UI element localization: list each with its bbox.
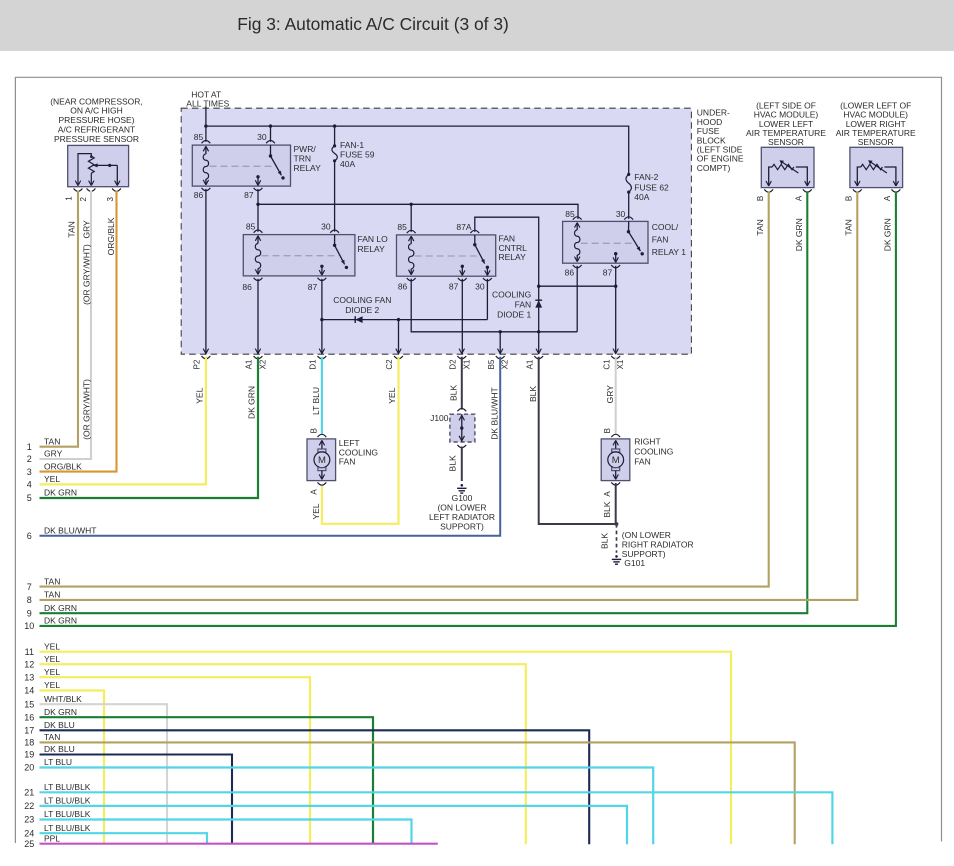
svg-text:DIODE 2: DIODE 2: [345, 305, 379, 315]
wire: circuit 20 LT BLU run with drop: [40, 768, 654, 845]
label FAN LO RELAY: [358, 234, 389, 254]
svg-text:YEL: YEL: [311, 503, 321, 519]
svg-text:6: 6: [27, 531, 32, 541]
wire: COOL/FAN 1 pin 87 to connector C1/X1: [615, 266, 617, 354]
pin 87 terminal of FAN LO relay: [318, 278, 327, 281]
label PWR/TRN RELAY: [294, 144, 322, 173]
svg-text:A1: A1: [525, 359, 534, 369]
node: B5 tap on fan ground bus: [499, 330, 502, 333]
svg-text:A: A: [883, 195, 892, 201]
connector terminal A1/X2 at fuse block: [254, 349, 263, 359]
diode D2 COOLING FAN DIODE 2: [322, 316, 488, 323]
motor symbol left fan: [314, 440, 330, 479]
svg-text:(ON LOWER: (ON LOWER: [437, 503, 486, 513]
wire: FAN CNTRL pin 30 to diode 2 line: [486, 279, 488, 320]
pin 30 terminal of PWR/TRN relay: [266, 141, 275, 144]
svg-text:X1: X1: [616, 359, 625, 369]
svg-text:D1: D1: [309, 359, 318, 370]
svg-text:DK GRN: DK GRN: [794, 218, 804, 251]
svg-text:FAN: FAN: [634, 456, 651, 466]
svg-text:2: 2: [79, 197, 88, 202]
dashed actuator link FAN LO relay: [262, 255, 340, 257]
svg-text:86: 86: [565, 267, 575, 277]
wire: TAN left sensor pin B to circuit 7: [40, 191, 769, 586]
wire: circuit 17 DK BLU run with drop: [40, 730, 590, 844]
svg-text:ORG/BLK: ORG/BLK: [106, 217, 116, 255]
svg-text:11: 11: [25, 647, 34, 657]
node: diode 1 top junction: [537, 285, 540, 288]
connector terminal P2 at fuse block: [202, 349, 211, 359]
pin 85 terminal of PWR/TRN relay: [202, 141, 211, 144]
thermistor element (right sensor): [855, 160, 899, 186]
terminal arc above J100: [457, 409, 466, 412]
svg-text:A: A: [603, 491, 612, 497]
svg-text:(OR GRY/WHT): (OR GRY/WHT): [81, 379, 91, 440]
wire: BLK J100 to ground G100: [461, 447, 463, 482]
pin A terminal of right fan: [611, 482, 620, 485]
pin 86 terminal of FAN LO relay: [254, 278, 263, 281]
svg-text:YEL: YEL: [195, 387, 205, 403]
svg-text:COOL/: COOL/: [652, 222, 679, 232]
svg-text:1: 1: [65, 196, 74, 201]
pin 86 terminal of PWR/TRN relay: [202, 188, 211, 191]
switch of FAN CNTRL relay: [473, 235, 489, 269]
label HOT AT ALL TIMES: [186, 89, 229, 108]
pressure sensor wiper arm: [75, 155, 120, 185]
wire: circuit 13 YEL run with drop: [40, 677, 311, 844]
svg-text:YEL: YEL: [44, 474, 60, 484]
coil of FAN CNTRL relay: [409, 236, 414, 275]
svg-text:23: 23: [24, 815, 34, 825]
pin 87 terminal of COOL/FAN relay 1: [611, 265, 620, 268]
label RIGHT COOLING FAN: [634, 436, 673, 466]
svg-text:COOLING: COOLING: [634, 447, 673, 457]
svg-text:(OR GRY/WHT): (OR GRY/WHT): [81, 244, 91, 305]
ground G100: [457, 484, 466, 493]
svg-text:A: A: [795, 195, 804, 201]
svg-text:14: 14: [24, 686, 34, 696]
svg-text:WHT/BLK: WHT/BLK: [44, 694, 82, 704]
node: C2 wire tap on diode 2 line: [397, 318, 400, 321]
pressure sensor box: [68, 145, 129, 186]
svg-text:FAN LO: FAN LO: [358, 234, 389, 244]
pin 86 terminal of COOL/FAN relay 1: [573, 265, 582, 268]
node: diode 1 bottom on fan ground bus: [537, 330, 540, 333]
svg-text:M: M: [318, 455, 326, 466]
svg-text:LT BLU: LT BLU: [311, 387, 321, 415]
svg-text:30: 30: [321, 222, 331, 232]
svg-text:M: M: [612, 455, 620, 466]
svg-text:B5: B5: [487, 359, 496, 369]
connector terminal C2 at fuse block: [394, 349, 403, 359]
wire: ORG/BLK from sensor pin 3 to circuit 3: [40, 191, 117, 472]
air temperature sensor box (right): [850, 147, 903, 187]
svg-text:B: B: [603, 428, 612, 433]
connector terminal A1 at fuse block: [534, 349, 543, 359]
wire: LT BLU connector D1 to left cooling fan pin B: [321, 357, 323, 434]
wire: YEL connector P2 to circuit 4: [40, 357, 206, 485]
pin A terminal of left fan: [318, 482, 327, 485]
splice J100 box: [450, 414, 475, 442]
pin B terminal (left sensor): [764, 189, 773, 192]
svg-text:DK GRN: DK GRN: [44, 603, 77, 613]
svg-text:C2: C2: [385, 359, 394, 370]
svg-text:LT BLU/BLK: LT BLU/BLK: [44, 796, 91, 806]
svg-text:PWR/: PWR/: [294, 144, 317, 154]
svg-text:COOLING FAN: COOLING FAN: [333, 295, 391, 305]
svg-text:TAN: TAN: [67, 221, 77, 237]
pin 85 terminal of FAN CNTRL relay: [407, 230, 416, 233]
svg-text:3: 3: [27, 467, 32, 477]
svg-text:DK GRN: DK GRN: [44, 488, 77, 498]
svg-text:13: 13: [24, 672, 34, 682]
svg-text:B: B: [845, 196, 854, 201]
wire through J100 splice: [459, 414, 464, 442]
node: right fan ground junction: [615, 522, 619, 526]
dashed actuator link FAN CNTRL relay: [415, 255, 478, 257]
svg-text:B: B: [309, 428, 318, 433]
svg-text:RELAY: RELAY: [358, 244, 386, 254]
wire: DK BLU/WHT connector B5/X2 to circuit 6: [40, 357, 501, 536]
ground G101: [612, 555, 621, 564]
wire: FAN CNTRL pin 87 to connector D2/X1: [461, 279, 463, 354]
motor M1 LEFT COOLING FAN box: [307, 439, 336, 481]
pin 87 terminal of PWR/TRN relay: [254, 188, 263, 191]
wire: relay coil feed bus: [258, 204, 578, 219]
pressure sensor pin terminals 1 2 3: [74, 189, 121, 192]
node: coil bus at FAN LO pin 85: [256, 203, 259, 206]
node: diode 2 tap on FAN LO pin 87 wire: [320, 318, 323, 321]
thermistor element (left sensor): [766, 160, 810, 186]
svg-text:J100: J100: [430, 413, 449, 423]
svg-text:86: 86: [242, 282, 252, 292]
svg-text:G101: G101: [624, 558, 645, 568]
svg-text:GRY: GRY: [605, 385, 615, 404]
fuse FAN-2 FUSE 62 40A: [626, 173, 631, 194]
svg-text:FAN: FAN: [652, 235, 669, 245]
label left air temperature sensor: [746, 100, 826, 147]
svg-text:ALL TIMES: ALL TIMES: [186, 98, 229, 108]
svg-text:LEFT RADIATOR: LEFT RADIATOR: [429, 512, 495, 522]
wire: circuit 23 LT BLU/BLK run with drop: [40, 820, 412, 845]
pressure sensor potentiometer: [78, 154, 94, 184]
relay FAN LO RELAY box: [243, 235, 355, 276]
svg-text:FAN: FAN: [515, 300, 532, 310]
connector terminal C1/X1 at fuse block: [611, 349, 620, 359]
air temperature sensor box (left): [761, 147, 814, 187]
svg-text:40A: 40A: [340, 159, 355, 169]
svg-text:86: 86: [398, 281, 408, 291]
wire: COOL/FAN 1 pin 86 drop to fan ground bus: [576, 266, 578, 332]
wire: FAN-2 fuse to COOL/FAN relay 1 pin 30: [628, 192, 630, 219]
pin A terminal (left sensor): [803, 189, 812, 192]
pin 85 terminal of COOL/FAN relay 1: [573, 217, 582, 220]
svg-text:7: 7: [27, 582, 32, 592]
wire: circuit 25 PPL horizontal run: [40, 843, 438, 845]
wire: FAN LO pin 86 to connector A1/X2: [257, 279, 259, 354]
svg-text:40A: 40A: [634, 192, 649, 202]
svg-text:DK BLU: DK BLU: [44, 720, 75, 730]
terminal arc below J100: [457, 445, 466, 448]
fuse FAN-1 FUSE 59 40A: [332, 144, 337, 162]
svg-text:YEL: YEL: [44, 680, 60, 690]
svg-text:3: 3: [106, 197, 115, 202]
svg-text:21: 21: [24, 788, 34, 798]
wire: circuit 15 WHT/BLK run with drop: [40, 704, 168, 844]
node: coil bus at FAN CNTRL pin 85: [410, 203, 413, 206]
wire: circuit 11 YEL run with drop: [40, 652, 732, 845]
relay COOL/FAN RELAY 1 box: [563, 221, 648, 263]
pin 87 terminal of FAN CNTRL relay: [458, 278, 467, 281]
svg-text:17: 17: [24, 726, 34, 736]
svg-text:FUSE 59: FUSE 59: [340, 150, 375, 160]
svg-text:P2: P2: [193, 359, 202, 369]
wire: B+ bus inside fuse block: [206, 126, 629, 174]
wire: diode 1 node to COOL/FAN 1 pin 87 wire: [539, 285, 616, 287]
wire: DK GRN right sensor pin A to circuit 10: [40, 191, 896, 626]
svg-text:5: 5: [27, 493, 32, 503]
dashed actuator link PWR/TRN relay: [210, 165, 274, 167]
svg-text:BLK: BLK: [528, 386, 538, 402]
label (ON LOWER RIGHT RADIATOR SUPPORT) G101: [622, 530, 694, 568]
wire: TAN right sensor pin B to circuit 8: [40, 191, 858, 600]
svg-text:YEL: YEL: [387, 387, 397, 403]
svg-text:RIGHT: RIGHT: [634, 436, 660, 446]
svg-text:FAN-1: FAN-1: [340, 140, 364, 150]
svg-text:8: 8: [27, 595, 32, 605]
node: junction at COOL/FAN 1 pin 87 wire: [614, 285, 617, 288]
relay FAN CNTRL RELAY box: [397, 235, 496, 276]
wire: circuit 12 YEL run with drop: [40, 664, 526, 844]
svg-text:TRN: TRN: [294, 153, 311, 163]
svg-text:X1: X1: [462, 359, 471, 369]
wire: YEL connector C2 to left cooling fan pin A: [322, 357, 399, 524]
wire: DK GRN left sensor pin A to circuit 9: [40, 191, 808, 613]
wire: coil bus drop to FAN CNTRL relay pin 85: [410, 204, 412, 232]
svg-text:16: 16: [24, 712, 34, 722]
svg-text:RIGHT RADIATOR: RIGHT RADIATOR: [622, 540, 694, 550]
svg-text:PRESSURE SENSOR: PRESSURE SENSOR: [54, 134, 139, 144]
svg-text:BLK: BLK: [449, 385, 459, 401]
svg-text:RELAY: RELAY: [294, 163, 322, 173]
wire: TAN from sensor pin 1 to circuit 1: [40, 191, 79, 447]
svg-text:DK GRN: DK GRN: [44, 707, 77, 717]
relay PWR/TRN RELAY box: [192, 145, 290, 186]
pin B terminal of right fan: [611, 434, 620, 437]
switch of PWR/TRN relay: [269, 145, 285, 179]
wire: BLK connector D2/X1 to junction J100: [461, 357, 463, 410]
svg-text:85: 85: [246, 222, 256, 232]
wire: circuit 18 TAN run with drop: [40, 742, 795, 844]
svg-text:YEL: YEL: [44, 641, 60, 651]
wire: diode 2 line to connector C2: [398, 320, 400, 355]
svg-text:DK GRN: DK GRN: [44, 616, 77, 626]
svg-text:15: 15: [24, 699, 34, 709]
dashed actuator link COOL/FAN relay 1: [581, 242, 633, 244]
label: A/C refrigerant pressure sensor: [50, 96, 143, 144]
wire: FAN LO pin 87 to connector D1: [321, 279, 323, 354]
svg-text:BLK: BLK: [447, 455, 457, 471]
svg-text:DK BLU/WHT: DK BLU/WHT: [490, 387, 500, 439]
svg-text:TAN: TAN: [844, 219, 854, 235]
svg-text:SENSOR: SENSOR: [858, 137, 894, 147]
svg-text:9: 9: [27, 608, 32, 618]
wire: GRY connector C1/X1 to right cooling fan pin B: [615, 357, 617, 434]
svg-text:RELAY 1: RELAY 1: [652, 247, 686, 257]
wire: BLK dashed to ground G101: [616, 524, 618, 553]
svg-text:1: 1: [27, 442, 32, 452]
pin A terminal (right sensor): [892, 189, 901, 192]
pin 87 contact stub FAN LO relay: [319, 265, 324, 276]
pin 85 terminal of FAN LO relay: [254, 230, 263, 233]
svg-text:TAN: TAN: [44, 576, 60, 586]
svg-text:B: B: [756, 196, 765, 201]
pin 87A terminal of FAN CNTRL relay: [470, 230, 479, 233]
pin 87 contact stub PWR/TRN relay: [255, 175, 260, 185]
wire: circuit 21 LT BLU/BLK run with drop: [40, 792, 833, 844]
switch of COOL/FAN relay 1: [627, 221, 644, 255]
pin B terminal (right sensor): [853, 189, 862, 192]
motor M2 RIGHT COOLING FAN box: [601, 439, 630, 481]
label COOL/FAN RELAY 1: [652, 222, 686, 257]
svg-text:4: 4: [27, 480, 32, 490]
svg-text:G100: G100: [452, 493, 473, 503]
label FAN-2 FUSE 62 40A: [634, 172, 669, 202]
pin 30 terminal of FAN CNTRL relay: [483, 278, 492, 281]
svg-text:TAN: TAN: [44, 732, 60, 742]
svg-text:SUPPORT): SUPPORT): [440, 522, 484, 532]
svg-text:A1: A1: [245, 359, 254, 369]
svg-text:BLK: BLK: [602, 501, 612, 517]
svg-text:30: 30: [616, 209, 626, 219]
wire: GRY from sensor pin 2 to circuit 2: [40, 191, 92, 460]
svg-text:A: A: [309, 489, 318, 495]
svg-text:DK BLU/WHT: DK BLU/WHT: [44, 525, 96, 535]
node: bus junction at FAN-1 fuse feed: [333, 124, 336, 127]
svg-text:85: 85: [194, 132, 204, 142]
svg-text:25: 25: [24, 839, 34, 849]
svg-text:87A: 87A: [456, 222, 471, 232]
pin 86 terminal of FAN CNTRL relay: [407, 278, 416, 281]
wire: circuit 14 YEL run with drop: [40, 691, 105, 845]
svg-text:22: 22: [24, 801, 34, 811]
svg-text:87: 87: [244, 190, 254, 200]
pin 87 contact stub COOL/FAN relay 1: [613, 252, 618, 262]
wire: circuit 16 DK GRN run with drop: [40, 717, 374, 844]
label LEFT COOLING FAN: [339, 438, 378, 467]
coil of FAN LO relay: [255, 236, 260, 275]
pin 30 terminal of FAN LO relay: [330, 230, 339, 233]
pin B terminal of left fan: [318, 434, 327, 437]
wire: DK GRN connector A1/X2 to circuit 5: [40, 357, 259, 498]
svg-text:2: 2: [27, 454, 32, 464]
svg-text:LT BLU/BLK: LT BLU/BLK: [44, 823, 91, 833]
svg-text:24: 24: [24, 828, 34, 838]
svg-text:PPL: PPL: [44, 833, 60, 843]
svg-text:SENSOR: SENSOR: [768, 137, 804, 147]
label G100 (ON LOWER LEFT RADIATOR SUPPORT): [429, 493, 495, 532]
coil of COOL/FAN relay 1: [575, 223, 580, 262]
svg-text:TAN: TAN: [755, 219, 765, 235]
svg-text:LT BLU/BLK: LT BLU/BLK: [44, 809, 91, 819]
svg-text:RELAY: RELAY: [499, 252, 527, 262]
svg-text:30: 30: [257, 132, 267, 142]
svg-text:C1: C1: [602, 359, 611, 370]
svg-text:12: 12: [24, 659, 34, 669]
svg-text:DIODE 1: DIODE 1: [497, 310, 531, 320]
svg-text:86: 86: [194, 190, 204, 200]
svg-text:FAN-2: FAN-2: [634, 172, 658, 182]
underhood fuse block (dashed box): [181, 108, 691, 354]
svg-text:DK GRN: DK GRN: [883, 218, 893, 251]
wire: bus drop to PWR/TRN relay pin 30: [270, 126, 272, 142]
wire: circuit 19 DK BLU run with drop: [40, 755, 233, 845]
svg-text:20: 20: [24, 763, 34, 773]
connector terminal D2/X1 at fuse block: [457, 349, 466, 359]
svg-text:85: 85: [397, 222, 407, 232]
pin 87 contact stub FAN CNTRL relay: [460, 265, 465, 276]
svg-text:87: 87: [449, 281, 459, 291]
svg-text:10: 10: [24, 621, 34, 631]
label underhood fuse block: [697, 108, 744, 173]
wire: BLK connector A1 to right fan ground junction: [539, 357, 617, 524]
coil of PWR/TRN relay: [203, 146, 208, 185]
diode D1 COOLING FAN DIODE 1: [535, 286, 542, 332]
svg-text:LT BLU: LT BLU: [44, 757, 72, 767]
label COOLING FAN DIODE 2: [333, 295, 391, 315]
pin 30 terminal of COOL/FAN relay 1: [624, 217, 633, 220]
wire: FAN CNTRL pin 87A to cooling fan diode 1 node: [475, 217, 539, 286]
svg-text:X2: X2: [501, 359, 510, 369]
wire: circuit 24 LT BLU/BLK run with drop: [40, 833, 208, 844]
wire: fan ground bus to connector B5/X2: [499, 332, 501, 354]
label right air temperature sensor: [836, 100, 916, 147]
svg-text:COMPT): COMPT): [697, 163, 731, 173]
svg-text:87: 87: [308, 282, 318, 292]
svg-text:GRY: GRY: [81, 220, 91, 239]
wire: bus drop to PWR/TRN relay pin 85: [205, 126, 207, 142]
svg-text:FAN: FAN: [339, 457, 356, 467]
connector terminal D1 at fuse block: [318, 349, 327, 359]
svg-text:TAN: TAN: [44, 590, 60, 600]
svg-text:ORG/BLK: ORG/BLK: [44, 461, 82, 471]
switch of FAN LO relay: [333, 235, 348, 269]
wire: diode 1 to connector A1 (right): [538, 332, 540, 354]
svg-text:19: 19: [24, 750, 34, 760]
wire: circuit 22 LT BLU/BLK run with drop: [40, 806, 628, 844]
node: bus junction at relay pin 85 feed: [204, 124, 207, 127]
svg-text:DK GRN: DK GRN: [246, 386, 256, 419]
svg-text:GRY: GRY: [44, 449, 63, 459]
node: bus junction at relay pin 30 feed: [269, 124, 272, 127]
wire: bus drop to FAN-1 fuse: [334, 126, 336, 146]
pin 30 contact stub FAN CNTRL relay: [485, 267, 490, 275]
svg-text:COOLING: COOLING: [492, 290, 531, 300]
svg-text:30: 30: [475, 281, 485, 291]
svg-text:LT BLU/BLK: LT BLU/BLK: [44, 782, 91, 792]
svg-text:YEL: YEL: [44, 654, 60, 664]
svg-text:D2: D2: [449, 359, 458, 370]
svg-text:87: 87: [603, 267, 613, 277]
wire: battery feed into fuse block: [205, 107, 207, 127]
label FAN-1 FUSE 59 40A: [340, 140, 375, 169]
svg-text:BLK: BLK: [600, 533, 610, 549]
label COOLING FAN DIODE 1: [492, 290, 531, 320]
svg-text:18: 18: [24, 738, 34, 748]
svg-text:DK BLU: DK BLU: [44, 744, 75, 754]
svg-text:YEL: YEL: [44, 667, 60, 677]
label FAN CNTRL RELAY: [499, 234, 528, 263]
